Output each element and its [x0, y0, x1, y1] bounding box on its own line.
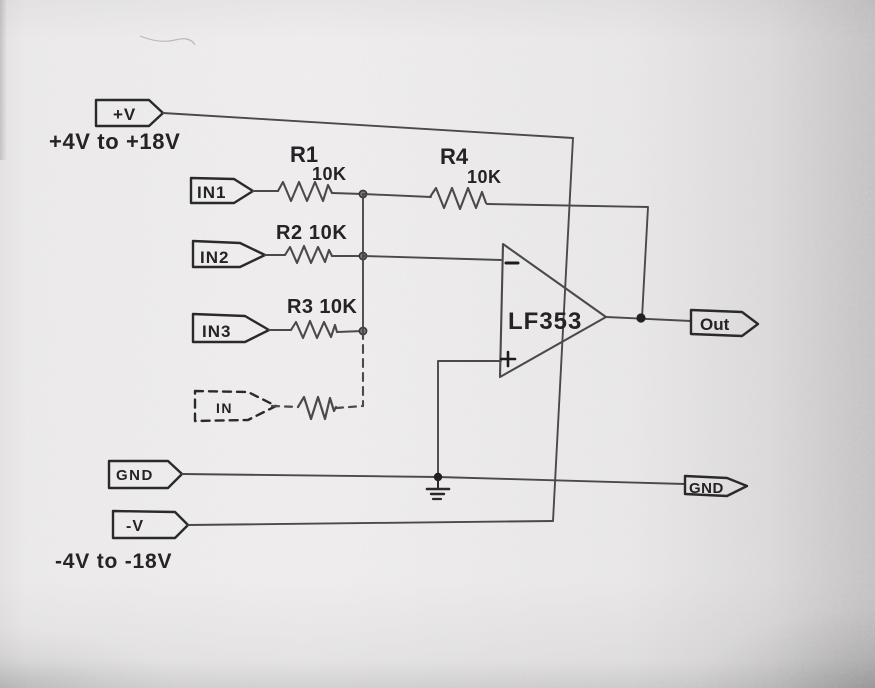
wire IN3 lead — [269, 329, 291, 331]
wire R4 feedback — [487, 204, 648, 318]
label R4 — [440, 144, 502, 187]
svg-text:IN3: IN3 — [202, 322, 231, 341]
flag GND right — [685, 476, 747, 496]
wire -V rail — [188, 521, 553, 525]
node ground — [434, 473, 442, 481]
svg-text:GND: GND — [116, 467, 154, 484]
wire summing column — [362, 194, 364, 331]
node C — [359, 327, 366, 334]
node A — [359, 190, 366, 197]
flag IN2 — [193, 241, 265, 267]
wire dashed column — [362, 331, 364, 405]
svg-text:-4V to -18V: -4V to -18V — [55, 550, 172, 573]
ground symbol — [427, 481, 449, 499]
op-amp plus sign — [501, 352, 515, 366]
wire dashed to column — [336, 406, 363, 408]
svg-text:GND: GND — [689, 480, 724, 497]
svg-text:+V: +V — [113, 105, 136, 124]
svg-text:R4: R4 — [440, 144, 469, 169]
wire supply vertical — [553, 138, 573, 521]
svg-text:IN2: IN2 — [200, 248, 229, 267]
flag +V — [96, 100, 163, 126]
resistor R2 — [285, 246, 332, 263]
wire IN2 lead — [265, 254, 285, 256]
wire R2 to node B — [332, 255, 363, 257]
svg-text:10K: 10K — [312, 164, 347, 184]
flag Out — [691, 310, 758, 336]
wire IN1 lead — [253, 190, 278, 192]
wire R3 to node C — [337, 331, 363, 332]
flag IN (dashed) — [195, 391, 276, 421]
wire ground rail — [182, 474, 685, 484]
svg-text:Out: Out — [700, 315, 730, 334]
svg-text:-V: -V — [126, 518, 144, 535]
resistor R spare — [298, 397, 336, 419]
node B — [359, 252, 366, 259]
svg-text:10K: 10K — [467, 167, 502, 187]
wire R1 to node A — [332, 193, 363, 194]
flag GND left — [109, 461, 182, 488]
svg-text:+4V to +18V: +4V to +18V — [49, 129, 180, 154]
wire node A to R4 — [363, 194, 431, 197]
node output — [636, 313, 645, 322]
wire output — [606, 317, 691, 321]
svg-text:IN: IN — [216, 400, 233, 416]
flag IN1 — [191, 178, 253, 203]
wire inverting input — [363, 256, 501, 260]
flag -V — [113, 511, 188, 538]
wire noninverting input — [438, 361, 501, 473]
resistor R4 — [430, 188, 486, 209]
op-amp U1 — [500, 244, 606, 377]
svg-text:IN1: IN1 — [197, 183, 226, 202]
svg-text:LF353: LF353 — [508, 308, 582, 335]
pencil scratch — [140, 36, 195, 45]
label R1 — [290, 142, 347, 184]
op-amp minus sign — [506, 262, 518, 265]
svg-text:R2 10K: R2 10K — [276, 222, 347, 244]
resistor R3 — [291, 321, 337, 338]
wire +V rail — [163, 113, 573, 138]
svg-text:R3 10K: R3 10K — [287, 296, 357, 318]
wire IN dashed lead — [272, 406, 298, 407]
resistor R1 — [278, 182, 332, 201]
flag IN3 — [193, 314, 269, 342]
